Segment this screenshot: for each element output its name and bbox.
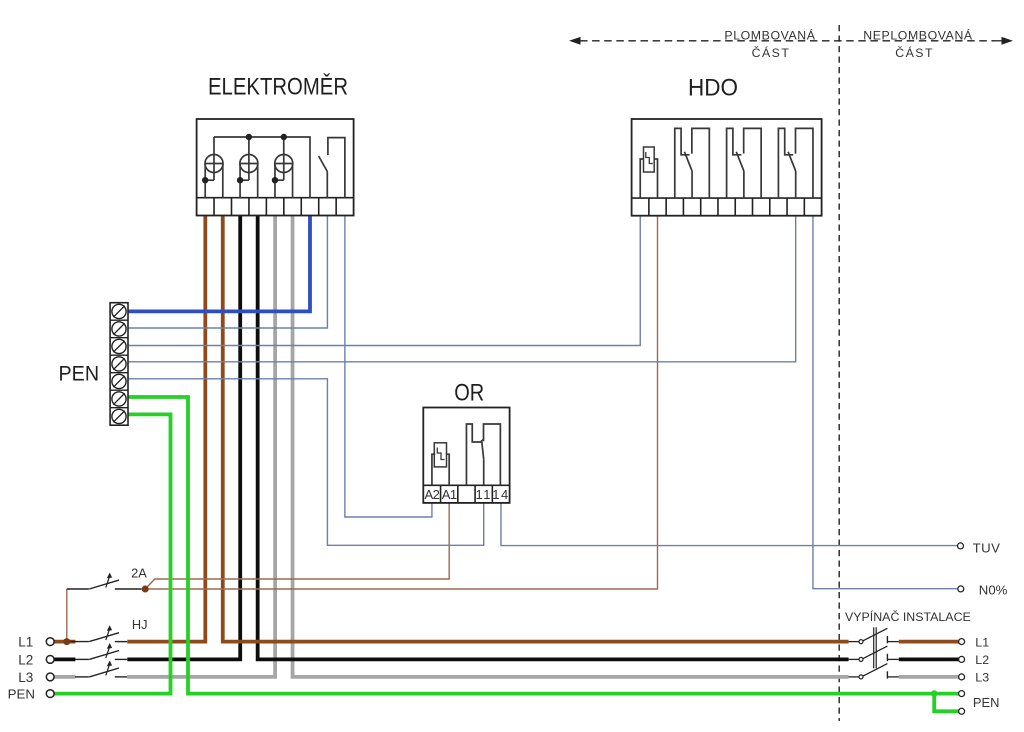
svg-text:11: 11: [475, 487, 492, 502]
svg-text:N0%: N0%: [979, 583, 1008, 598]
svg-text:TUV: TUV: [973, 541, 1001, 556]
svg-text:ELEKTROMĚR: ELEKTROMĚR: [208, 74, 348, 101]
svg-text:A2: A2: [424, 487, 439, 502]
svg-text:L1: L1: [18, 635, 33, 650]
svg-text:HJ: HJ: [132, 617, 148, 632]
svg-text:PEN: PEN: [973, 695, 1000, 710]
svg-text:L2: L2: [18, 652, 33, 667]
svg-text:14: 14: [492, 487, 509, 502]
svg-text:PEN: PEN: [59, 362, 100, 385]
svg-text:L1: L1: [975, 635, 989, 649]
svg-text:PLOMBOVANÁ: PLOMBOVANÁ: [724, 27, 815, 42]
svg-text:ČÁST: ČÁST: [752, 45, 791, 60]
svg-text:HDO: HDO: [688, 75, 738, 102]
svg-text:2A: 2A: [131, 565, 147, 580]
svg-text:VYPÍNAČ INSTALACE: VYPÍNAČ INSTALACE: [845, 609, 971, 624]
svg-text:ČÁST: ČÁST: [895, 45, 934, 60]
svg-text:A1: A1: [442, 487, 457, 502]
svg-text:L3: L3: [18, 670, 33, 685]
svg-text:L2: L2: [975, 653, 989, 667]
svg-text:NEPLOMBOVANÁ: NEPLOMBOVANÁ: [863, 27, 973, 42]
svg-text:OR: OR: [454, 380, 484, 407]
svg-text:L3: L3: [975, 671, 989, 685]
svg-text:PEN: PEN: [8, 687, 35, 702]
